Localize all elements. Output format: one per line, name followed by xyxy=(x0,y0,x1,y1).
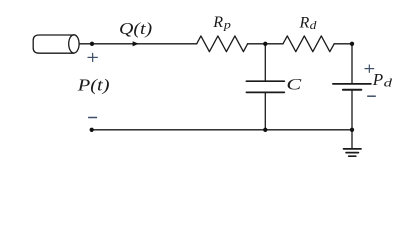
flow arrow Q(t) xyxy=(133,41,139,46)
source pump cylinder xyxy=(33,35,79,53)
svg-text:p: p xyxy=(223,18,231,32)
svg-text:C: C xyxy=(286,76,302,93)
label + of battery xyxy=(365,65,375,73)
label - of battery xyxy=(367,95,376,97)
ground xyxy=(344,149,362,156)
wire top left xyxy=(79,43,196,45)
wire resistor Rd to right node xyxy=(334,43,352,45)
wire battery branch upper xyxy=(351,44,353,83)
node A (source + terminal) xyxy=(90,42,94,46)
svg-text:Q(t): Q(t) xyxy=(119,19,153,38)
svg-text:R: R xyxy=(299,14,310,31)
svg-text:P: P xyxy=(372,70,383,89)
wire capacitor branch lower xyxy=(264,93,266,130)
svg-text:d: d xyxy=(384,76,393,90)
wire battery branch lower xyxy=(351,91,353,130)
minus terminal of source xyxy=(88,117,97,119)
wire ground stem xyxy=(351,130,353,149)
resistor Rp xyxy=(197,36,248,52)
node junction Rd-battery xyxy=(350,42,354,46)
capacitor C plates xyxy=(246,81,284,92)
node source - terminal xyxy=(90,128,94,132)
wire capacitor branch upper xyxy=(264,44,266,81)
node battery-ground xyxy=(350,128,354,132)
wire between resistors xyxy=(248,43,283,45)
wire bottom rail xyxy=(92,129,352,131)
svg-text:P(t): P(t) xyxy=(77,76,110,95)
node C-bottom rail xyxy=(263,128,267,132)
resistor Rd xyxy=(283,36,334,52)
battery source Pd xyxy=(333,84,371,90)
svg-text:d: d xyxy=(310,18,318,32)
plus terminal of source xyxy=(88,53,98,62)
svg-text:R: R xyxy=(212,14,223,31)
node junction Rp-Rd-C xyxy=(263,42,267,46)
